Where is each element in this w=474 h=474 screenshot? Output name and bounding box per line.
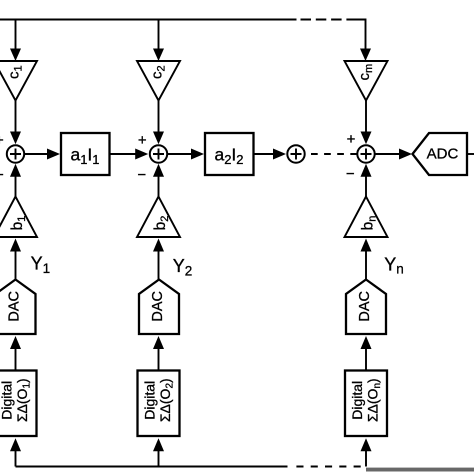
arrow into S3 bbox=[273, 149, 286, 160]
svg-text:ADC: ADC bbox=[427, 145, 459, 162]
top feedforward bus wire (solid) bbox=[0, 19, 297, 21]
arrow into S4 bottom bbox=[361, 164, 372, 177]
arrow into cm bbox=[360, 49, 371, 62]
dashed wire S3 to S4 bbox=[311, 153, 357, 155]
summer S4 (final) bbox=[357, 145, 374, 162]
arrow into digital3 bbox=[361, 438, 372, 451]
wire bottom bus to digital2 bbox=[158, 451, 160, 467]
svg-text:Digital: Digital bbox=[349, 381, 365, 420]
arrow into a1I1 bbox=[47, 149, 60, 160]
wire digital3 to DAC3 bbox=[365, 349, 367, 371]
wire S2 to a2I2 bbox=[168, 153, 192, 155]
digital sigma-delta block 2 bbox=[138, 371, 180, 437]
arrow into a2I2 bbox=[191, 149, 204, 160]
svg-text:DAC: DAC bbox=[7, 291, 23, 322]
wire DAC2 to b2 bbox=[158, 251, 160, 280]
integrator block a2I2 bbox=[205, 133, 254, 175]
thick grey reference line (cropped figure element) bbox=[366, 468, 474, 472]
arrow into S2 bbox=[135, 149, 148, 160]
wire bottom bus to digital1 bbox=[15, 451, 17, 467]
wire cm to S4 bbox=[365, 101, 367, 134]
arrow into c2 bbox=[153, 49, 164, 62]
summer S2 bbox=[150, 145, 167, 162]
wire digital1 to DAC1 bbox=[15, 349, 17, 371]
feedback coefficient bn triangle bbox=[345, 197, 388, 238]
bottom feedback bus wire (solid) bbox=[16, 466, 288, 468]
bottom bus dashed segment bbox=[296, 466, 361, 468]
svg-text:Digital: Digital bbox=[142, 381, 158, 420]
coefficient cm triangle bbox=[345, 61, 388, 101]
digital sigma-delta block 1 bbox=[0, 371, 37, 437]
summer S3 (intermediate) bbox=[287, 145, 304, 162]
svg-text:Y1: Y1 bbox=[31, 254, 51, 276]
arrow into digital2 bbox=[153, 438, 164, 451]
DAC1 block bbox=[0, 280, 36, 335]
wire tap down to c2 bbox=[158, 20, 160, 50]
arrow into digital1 bbox=[10, 438, 21, 451]
arrow into S4 top bbox=[361, 132, 372, 145]
arrow into DAC1 bbox=[10, 336, 21, 349]
S4 plus symbol bbox=[361, 149, 372, 160]
coefficient c2 triangle bbox=[137, 61, 180, 101]
svg-text:DAC: DAC bbox=[357, 291, 373, 322]
wire bn to S4 bbox=[365, 176, 367, 197]
ADC output wire bbox=[467, 153, 474, 155]
arrow into S2 bottom bbox=[153, 164, 164, 177]
svg-text:Y2: Y2 bbox=[173, 256, 193, 278]
arrow into c1 bbox=[10, 49, 21, 62]
wire tap down to c1 bbox=[15, 20, 17, 50]
top bus dashed segment bbox=[301, 19, 358, 21]
svg-text:−: − bbox=[137, 166, 146, 183]
arrow into S1 bottom bbox=[10, 164, 21, 177]
wire S4 to ADC bbox=[376, 153, 401, 155]
arrow into DAC3 bbox=[361, 336, 372, 349]
svg-text:−: − bbox=[346, 166, 355, 183]
DAC3 block bbox=[346, 280, 386, 335]
svg-text:+: + bbox=[138, 132, 147, 149]
wire b1 to S1 bbox=[15, 176, 17, 197]
wire a1I1 to S2 bbox=[110, 153, 137, 155]
svg-text:−: − bbox=[0, 166, 4, 183]
arrow into b2 base bbox=[153, 239, 164, 252]
arrow into ADC bbox=[399, 149, 412, 160]
wire DAC3 to bn bbox=[365, 251, 367, 280]
wire c1 to summer S1 bbox=[15, 101, 17, 134]
svg-text:DAC: DAC bbox=[150, 291, 166, 322]
feedback coefficient b2 triangle bbox=[137, 197, 180, 238]
arrow into DAC2 bbox=[153, 336, 164, 349]
digital sigma-delta block n bbox=[345, 371, 387, 437]
top bus corner into column n bbox=[355, 20, 366, 50]
arrow into b1 base bbox=[10, 239, 21, 252]
S3 plus symbol bbox=[291, 149, 302, 160]
coefficient c1 triangle bbox=[0, 61, 37, 101]
summer S1 bbox=[7, 145, 24, 162]
wire bottom bus riser column n bbox=[365, 451, 367, 467]
svg-text:+: + bbox=[347, 131, 356, 148]
feedback coefficient b1 triangle bbox=[0, 197, 37, 238]
wire a2I2 to S3 bbox=[254, 153, 275, 155]
wire DAC1 to b1 bbox=[15, 251, 17, 280]
arrow into bn base bbox=[361, 239, 372, 252]
S2 plus symbol bbox=[153, 149, 164, 160]
wire digital2 to DAC2 bbox=[158, 349, 160, 371]
arrow into S2 top bbox=[153, 132, 164, 145]
integrator block a1I1 bbox=[61, 133, 110, 175]
S1 plus symbol bbox=[10, 149, 21, 160]
svg-text:Digital: Digital bbox=[0, 381, 15, 420]
wire S1 to a1I1 bbox=[25, 153, 48, 155]
DAC2 block bbox=[139, 280, 179, 335]
arrow into S1 top bbox=[10, 132, 21, 145]
wire c2 to S2 bbox=[158, 101, 160, 134]
svg-text:+: + bbox=[0, 132, 4, 149]
wire b2 to S2 bbox=[158, 176, 160, 197]
svg-text:Yn: Yn bbox=[384, 254, 404, 276]
ADC block bbox=[413, 133, 468, 175]
